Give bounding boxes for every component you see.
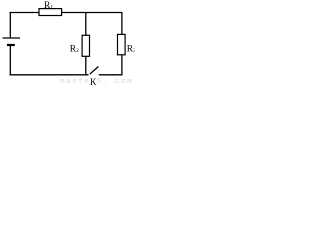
resistor R2 [82,35,89,56]
wire left lower [9,45,11,75]
wire left [9,12,11,37]
wire R3 branch upper [121,12,123,35]
switch K blade [90,67,99,75]
wire top [10,12,123,14]
wire bottom right [99,74,123,76]
wire bottom left [10,74,89,76]
battery long plate [3,37,21,39]
wire R3 branch lower [121,55,123,76]
resistor R3 [118,34,126,54]
svg-text:manfen5. com: manfen5. com [60,78,133,86]
wire R2 branch upper [85,12,87,35]
svg-text:K: K [90,77,97,86]
wire R2 branch lower [85,56,87,75]
resistor R1 [39,9,62,16]
battery short plate [7,44,15,46]
